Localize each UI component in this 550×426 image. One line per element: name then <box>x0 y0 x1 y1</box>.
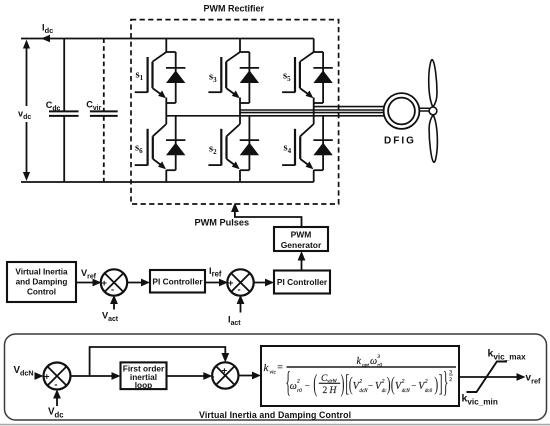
block First order inertial loop <box>121 362 167 389</box>
svg-text:2: 2 <box>402 379 405 385</box>
wire branch up and over to summer 4 <box>90 347 226 376</box>
svg-text:Iact: Iact <box>228 315 241 328</box>
svg-text:PWM Rectifier: PWM Rectifier <box>204 4 265 14</box>
wire first order box to summer 4 <box>167 375 210 377</box>
svg-text:2: 2 <box>297 378 300 384</box>
svg-text:s6: s6 <box>135 143 143 156</box>
svg-text:2: 2 <box>449 377 452 383</box>
shaft (double line) <box>419 108 429 111</box>
svg-text:}: } <box>443 365 449 398</box>
formula kvic inside block <box>264 354 457 398</box>
svg-text:-: - <box>111 284 114 295</box>
wire PI2 up to PWM generator <box>301 255 303 271</box>
wire phase A (leg1 to generator) <box>166 115 385 117</box>
svg-text:-: - <box>238 284 241 295</box>
wire formula block to Vref output <box>459 376 522 378</box>
svg-text:kvic_max: kvic_max <box>488 348 527 362</box>
block Virtual Inertia and Damping Control <box>7 262 76 302</box>
svg-text:Vdc: Vdc <box>48 407 64 420</box>
svg-text:s5: s5 <box>283 71 291 84</box>
wire summer2 to PI controller 2 <box>253 282 271 284</box>
IGBT S6 with antiparallel diode <box>135 116 186 182</box>
svg-text:-: - <box>54 379 57 390</box>
wire summer3 to first order box (with branch) <box>71 375 118 377</box>
svg-text:2: 2 <box>382 379 385 385</box>
svg-text:Virtual Inertia and Damping Co: Virtual Inertia and Damping Control <box>199 410 351 420</box>
svg-text:Vref: Vref <box>81 268 97 281</box>
svg-text:2: 2 <box>323 386 328 396</box>
IGBT S3 with antiparallel diode <box>208 39 259 104</box>
wire bottom DC bus <box>21 181 314 183</box>
arrowhead into rectifier box <box>231 203 239 213</box>
svg-text:s3: s3 <box>209 72 217 85</box>
svg-text:Iref: Iref <box>209 266 222 279</box>
wire phase B2 (leg2 to generator) <box>240 109 385 111</box>
PWM Rectifier dashed enclosure <box>131 20 339 204</box>
wire summer 4 to formula block <box>238 375 257 377</box>
wire Iact into summer 2 <box>240 298 242 313</box>
summer 1 <box>101 269 127 295</box>
svg-text:−: − <box>368 380 373 390</box>
svg-text:s4: s4 <box>284 143 292 156</box>
svg-text:-: - <box>211 372 214 383</box>
svg-text:k: k <box>357 356 362 367</box>
svg-text:+: + <box>228 278 234 289</box>
svg-text:vic: vic <box>270 370 277 376</box>
wire leg2 mid vertical <box>239 103 241 124</box>
svg-text:virW: virW <box>327 380 337 385</box>
svg-text:loop: loop <box>135 380 153 390</box>
svg-text:Cdc: Cdc <box>46 100 61 113</box>
capacitor Cdc <box>49 39 79 183</box>
svg-text:): ) <box>341 370 345 398</box>
wire phase B (leg2 to generator) <box>240 112 385 114</box>
svg-text:Idc: Idc <box>42 23 53 36</box>
svg-text:and Damping: and Damping <box>16 278 68 287</box>
IGBT S5 with antiparallel diode <box>282 39 333 104</box>
summer 4 <box>211 362 238 388</box>
wind turbine blade (top) <box>429 60 437 107</box>
IGBT S2 with antiparallel diode <box>208 116 259 182</box>
svg-text:H: H <box>329 386 338 396</box>
IGBT S4 with antiparallel diode <box>282 116 333 182</box>
svg-text:opt: opt <box>362 362 370 368</box>
wire leg1 mid vertical <box>165 103 167 124</box>
bottom enclosure (rounded) <box>5 334 547 420</box>
svg-text:2: 2 <box>359 379 362 385</box>
main fraction bar <box>287 366 457 368</box>
svg-text:VdcN: VdcN <box>14 365 34 378</box>
block PI Controller 1 <box>150 270 205 293</box>
block PI Controller 2 <box>274 271 330 294</box>
svg-text:Control: Control <box>27 288 56 297</box>
svg-text:r0: r0 <box>377 363 382 369</box>
capacitor Cvir (virtual, dashed leads) <box>90 39 118 183</box>
svg-text:2: 2 <box>425 379 428 385</box>
block PWM Generator <box>274 227 328 251</box>
svg-text:PI Controller: PI Controller <box>152 277 203 287</box>
wire leg3 mid vertical <box>313 103 315 124</box>
svg-text:(: ( <box>313 370 317 398</box>
svg-text:kvic_min: kvic_min <box>462 393 498 407</box>
svg-text:3: 3 <box>449 370 452 376</box>
svg-text:vdc: vdc <box>18 109 31 122</box>
svg-text:Generator: Generator <box>281 240 322 250</box>
Idc current arrow on top bus <box>41 35 50 43</box>
svg-text:dc0: dc0 <box>425 389 433 394</box>
wind turbine blade (bottom) <box>429 115 437 162</box>
svg-text:ω: ω <box>290 381 297 392</box>
summer 3 <box>44 363 71 391</box>
IGBT S1 with antiparallel diode <box>135 39 186 104</box>
saturation limiter symbol <box>467 362 508 393</box>
svg-text:3: 3 <box>376 354 380 360</box>
wire Vact into summer 1 <box>113 298 115 310</box>
svg-text:dcN: dcN <box>359 389 368 394</box>
wire summer1 to PI controller 1 <box>127 282 147 284</box>
svg-text:+: + <box>101 278 107 289</box>
svg-text:−: − <box>305 380 310 390</box>
wire PI1 to summer 2 <box>205 282 225 284</box>
generator DFIG (inner rotor circle) <box>388 98 415 125</box>
svg-text:s2: s2 <box>209 144 217 157</box>
svg-text:Virtual Inertia: Virtual Inertia <box>15 268 68 277</box>
Vdc measurement arrow (double headed) <box>23 40 30 182</box>
svg-text:dcN: dcN <box>402 389 411 394</box>
wire box to summer 1 <box>76 282 98 284</box>
wire Vdc into summer 3 <box>56 393 58 407</box>
svg-text:Cvir: Cvir <box>86 100 101 113</box>
block kvic formula <box>261 346 459 406</box>
generator DFIG (outer stator circle) <box>384 93 420 129</box>
svg-text:DFIG: DFIG <box>384 135 416 146</box>
svg-text:+: + <box>222 366 228 377</box>
wire VdcN into summer 3 <box>36 375 40 377</box>
svg-text:=: = <box>277 363 283 374</box>
svg-text:PWM Pulses: PWM Pulses <box>195 218 250 228</box>
svg-text:Vact: Vact <box>102 311 119 324</box>
page rule at bottom <box>0 424 550 426</box>
svg-text:s1: s1 <box>136 70 144 83</box>
svg-text:PI Controller: PI Controller <box>277 277 328 287</box>
wire PWM pulses (generator to rectifier) <box>235 206 302 227</box>
svg-text:vref: vref <box>526 373 542 386</box>
svg-text:+: + <box>44 371 50 382</box>
svg-text:−: − <box>411 380 416 390</box>
turbine hub <box>429 107 437 115</box>
svg-text:PWM: PWM <box>291 230 312 240</box>
svg-text:r0: r0 <box>297 388 302 394</box>
wire phase C (leg3 to generator) <box>314 106 386 108</box>
wire top DC bus <box>21 38 314 40</box>
summer 2 <box>227 269 253 295</box>
svg-text:ω: ω <box>370 356 377 367</box>
